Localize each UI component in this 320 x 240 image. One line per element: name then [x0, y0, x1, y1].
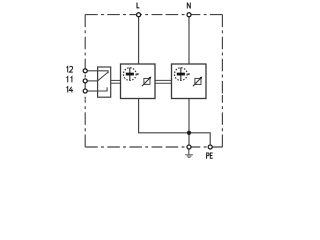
terminal L [137, 13, 141, 17]
label L [137, 3, 139, 8]
wire N drop [188, 15, 190, 64]
label 11 [67, 77, 72, 83]
terminal 14 [83, 89, 87, 93]
enclosure dash-dot border left [84, 15, 86, 147]
enclosure dash-dot border top [85, 14, 222, 16]
wire box2 bottom to junction [188, 99, 190, 133]
terminal PE [208, 145, 212, 149]
wire box1 bottom to bus [139, 99, 189, 133]
FM changeover switch arm [98, 72, 109, 81]
enclosure dash-dot border right [221, 15, 223, 147]
wire junction to ground terminal [188, 133, 190, 147]
wire terminal 12 to FM box [85, 70, 97, 72]
terminal N [187, 13, 191, 17]
FM switch box [98, 67, 111, 97]
SPD module 1 (L path, varistor with disconnector) [121, 64, 156, 99]
mechanical linkage module 1 to module 2 [155, 79, 172, 81]
wire L drop [138, 15, 140, 64]
label 14 [67, 87, 73, 93]
mechanical linkage FM box to module 1 [111, 79, 121, 81]
label PE [207, 153, 213, 159]
enclosure dash-dot border bottom [85, 146, 222, 148]
earth ground symbol [185, 149, 193, 157]
wire junction to PE terminal [189, 133, 210, 147]
FM contact 12 line [98, 71, 109, 73]
terminal earth [187, 145, 191, 149]
terminal 11 [83, 79, 87, 83]
wire terminal 14 to FM box [85, 90, 97, 92]
SPD module 2 (N path, varistor with disconnector) [172, 64, 207, 99]
label 12 [67, 66, 73, 72]
terminal 12 [83, 69, 87, 73]
FM contact 14 line [98, 87, 108, 91]
label N [187, 2, 190, 8]
junction node [187, 131, 191, 135]
wire terminal 11 to FM box [85, 80, 97, 82]
